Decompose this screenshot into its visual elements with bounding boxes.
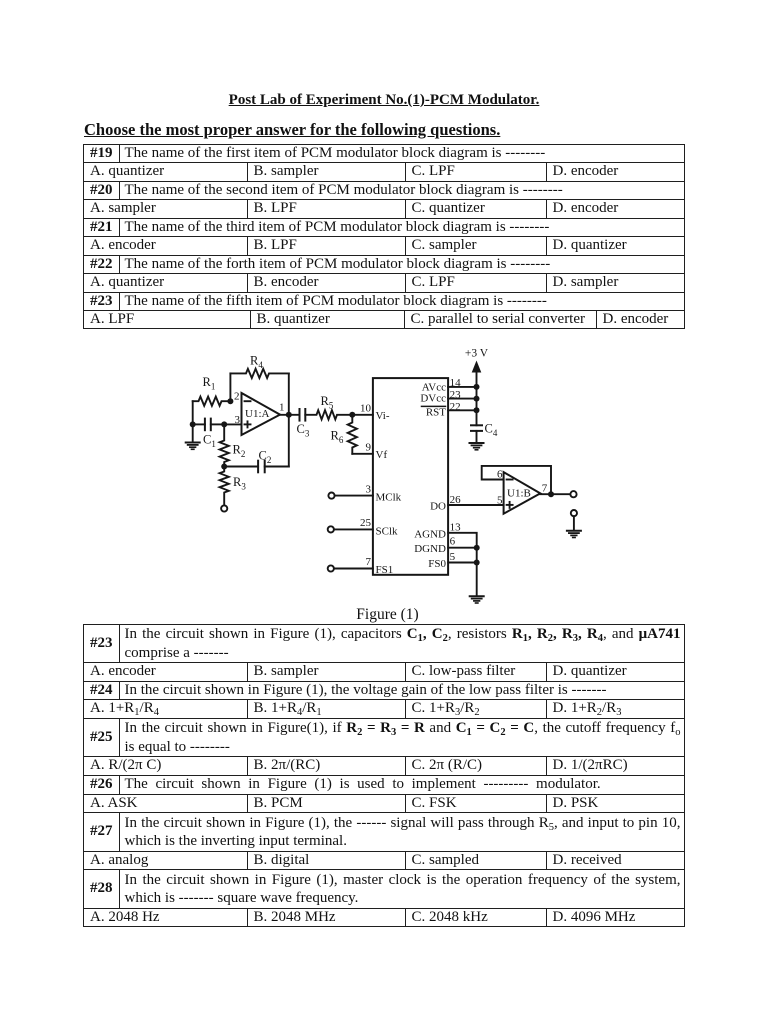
capacitor C1 <box>193 419 225 449</box>
svg-text:7: 7 <box>366 556 372 568</box>
svg-text:RST: RST <box>426 407 446 419</box>
ground (left rail) <box>186 443 200 450</box>
svg-text:13: 13 <box>450 521 462 533</box>
svg-text:5: 5 <box>450 551 456 563</box>
terminal FS1 input <box>328 565 334 571</box>
svg-text:U1:B: U1:B <box>507 488 531 500</box>
terminal SCLK input <box>328 526 334 532</box>
wire AGND <box>448 533 477 548</box>
svg-text:DGND: DGND <box>414 543 446 555</box>
IC U2 body <box>373 378 448 575</box>
wire R6 to IC pin 9 <box>352 453 373 455</box>
svg-text:C4: C4 <box>485 422 498 439</box>
svg-text:R3: R3 <box>233 475 246 492</box>
svg-text:SClk: SClk <box>376 526 399 538</box>
wire node to IC pin 10 <box>352 414 373 416</box>
+3 V supply rail <box>465 348 489 426</box>
svg-text:DO: DO <box>430 501 446 513</box>
svg-text:2: 2 <box>234 391 240 403</box>
title <box>0 92 768 109</box>
junction Vi- node <box>349 412 355 418</box>
op-amp U1:B <box>497 468 548 513</box>
svg-text:R5: R5 <box>321 394 334 411</box>
svg-text:1: 1 <box>279 402 285 414</box>
svg-text:DVcc: DVcc <box>420 392 446 404</box>
svg-text:AGND: AGND <box>414 528 446 540</box>
circuit schematic Figure (1) <box>0 330 768 620</box>
svg-text:5: 5 <box>497 495 503 507</box>
junction RST <box>474 407 480 413</box>
svg-text:C1: C1 <box>203 433 216 450</box>
wire U1:B feedback loop <box>482 466 551 494</box>
capacitor C3 <box>297 409 310 439</box>
wire RST to +3V rail <box>448 409 476 411</box>
op-amp U1:A <box>234 391 285 435</box>
svg-text:Vf: Vf <box>376 449 388 461</box>
svg-text:R1: R1 <box>203 375 216 392</box>
wire MCLK <box>335 495 373 497</box>
svg-text:R4: R4 <box>250 354 263 371</box>
table 2: questions 23-28 <box>83 624 685 927</box>
svg-text:25: 25 <box>360 517 372 529</box>
svg-text:22: 22 <box>450 401 461 413</box>
wire pin3 node to op-amp <box>224 423 241 425</box>
terminal R3 bottom <box>221 505 227 511</box>
table 1: questions 19-23 <box>83 144 685 330</box>
resistor R4 <box>230 354 288 379</box>
junction DGND <box>474 545 480 551</box>
ground (C4) <box>470 443 484 450</box>
figure caption <box>0 606 768 624</box>
junction DVcc <box>474 396 480 402</box>
resistor R2 <box>220 424 246 466</box>
junction pin3 node <box>221 421 227 427</box>
svg-text:23: 23 <box>450 389 462 401</box>
wire left rail (R1 left to ground) <box>192 401 194 442</box>
junction AVcc <box>474 384 480 390</box>
svg-text:R2: R2 <box>233 443 246 460</box>
svg-text:FS0: FS0 <box>428 558 446 570</box>
terminal MCLK input <box>328 493 334 499</box>
capacitor C4 <box>471 422 498 443</box>
junction output node <box>286 412 292 418</box>
ground (output reference) <box>567 531 581 538</box>
wire U1:B output <box>540 493 570 495</box>
junction FS0 <box>474 560 480 566</box>
wire feedback rail (R4/output/C2) <box>288 373 290 466</box>
wire pin2 rail <box>229 373 231 401</box>
svg-text:14: 14 <box>450 377 462 389</box>
wire SCLK <box>334 528 373 530</box>
svg-text:MClk: MClk <box>376 492 402 504</box>
wire DGND <box>448 547 477 549</box>
wire reference to ground <box>573 516 575 530</box>
pin name RST (active low) <box>422 406 447 418</box>
terminal output <box>570 491 576 497</box>
wire op-amp output <box>280 414 300 416</box>
junction R2/R3/C2 node <box>221 464 227 470</box>
svg-text:Vi-: Vi- <box>376 410 390 422</box>
junction C1 left node <box>190 421 196 427</box>
svg-text:10: 10 <box>360 403 372 415</box>
svg-text:6: 6 <box>450 536 456 548</box>
svg-text:3: 3 <box>366 483 372 495</box>
svg-text:3: 3 <box>235 414 241 426</box>
svg-text:9: 9 <box>366 442 372 454</box>
svg-text:+3 V: +3 V <box>465 348 489 360</box>
wire AVcc to +3V rail <box>448 386 476 388</box>
svg-text:7: 7 <box>542 482 548 494</box>
resistor R3 <box>220 467 247 506</box>
terminal reference <box>571 510 577 516</box>
subtitle <box>84 120 500 140</box>
capacitor C2 <box>224 449 289 473</box>
ground (digital) <box>470 596 484 603</box>
svg-text:C3: C3 <box>297 422 310 439</box>
svg-text:FS1: FS1 <box>376 564 394 576</box>
junction pin2 node <box>227 398 233 404</box>
resistor R5 <box>305 394 352 419</box>
wire ground rail (AGND/DGND/FS0) <box>476 548 478 596</box>
resistor R1 <box>193 375 231 406</box>
junction U1:B output node <box>548 491 554 497</box>
wire FS1 <box>334 568 373 570</box>
resistor R6 <box>331 415 357 454</box>
wire DVcc to +3V rail <box>448 398 476 400</box>
wire FS0 <box>448 562 477 564</box>
svg-text:R6: R6 <box>331 429 344 446</box>
svg-text:26: 26 <box>450 494 462 506</box>
svg-text:U1:A: U1:A <box>245 408 270 420</box>
wire DO to U1:B pin 5 <box>448 504 504 506</box>
